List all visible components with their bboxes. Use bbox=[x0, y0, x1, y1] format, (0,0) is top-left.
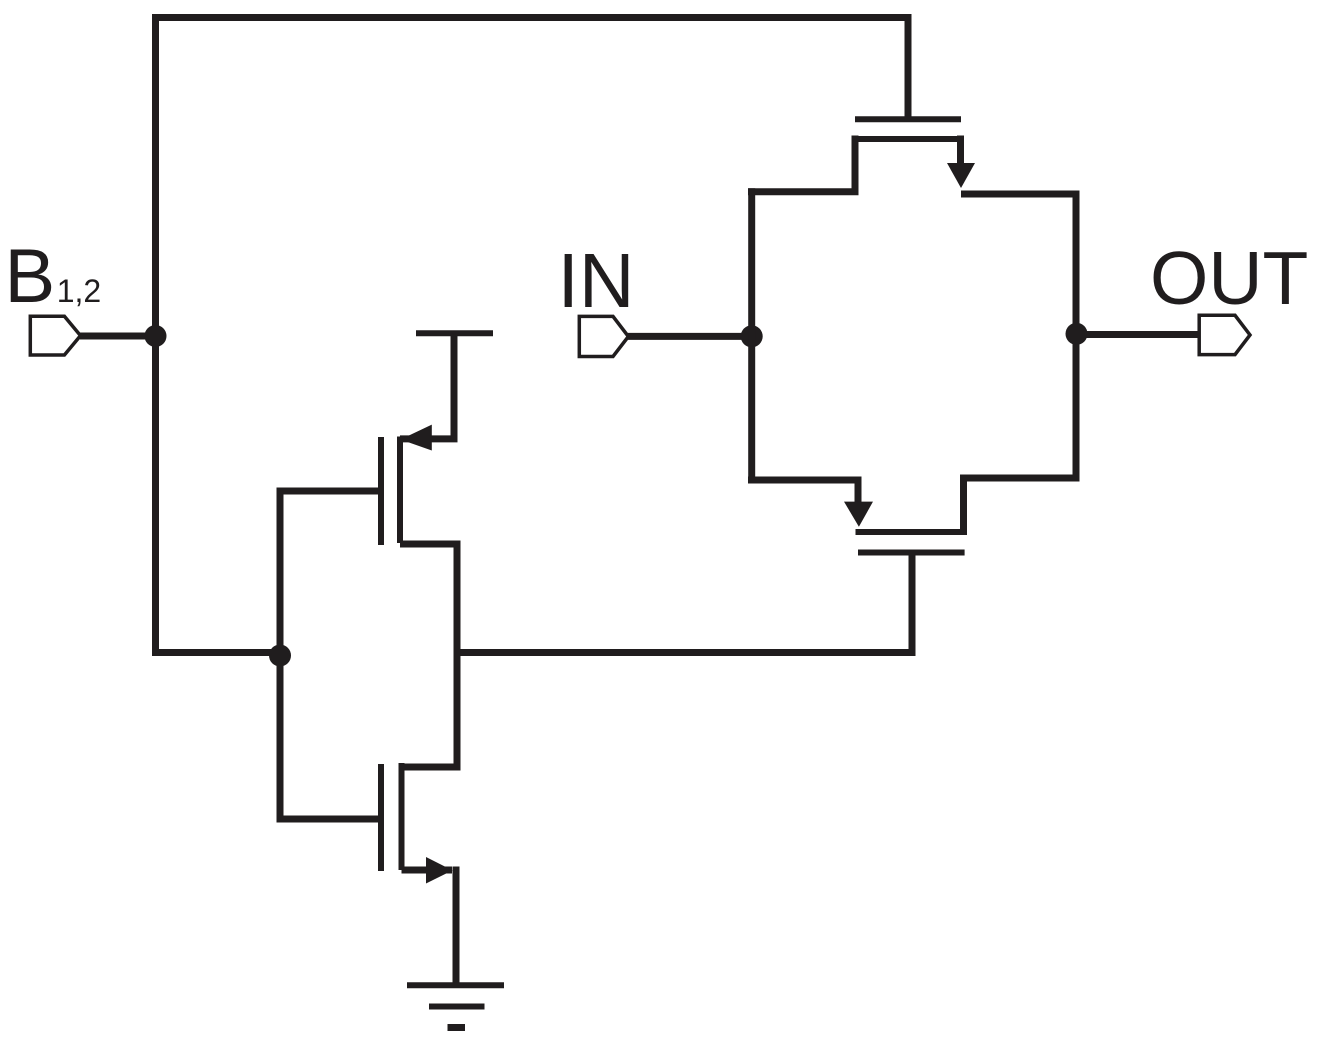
transistor M2 gate bar bbox=[858, 550, 965, 556]
node IN junction dot bbox=[741, 325, 763, 347]
transistor M2 gate lead down to inverter output wire bbox=[909, 553, 916, 657]
transistor M2 (TG bottom NMOS) source lead (left) with arrow bbox=[855, 477, 862, 504]
transistor M2 arrow (down into channel) bbox=[844, 502, 873, 527]
transistor M3 gate bar bbox=[378, 437, 384, 545]
wire: TG top-right horizontal to OUT vertical bbox=[961, 191, 1080, 198]
transistor M2 drain lead (right) bbox=[964, 478, 1080, 535]
port pin B (input flag) bbox=[30, 316, 80, 355]
transistor M1 drain lead (right) bbox=[957, 136, 964, 166]
wire: inverter input vertical (gates tie) bbox=[277, 488, 284, 823]
transistor M4 gate lead bbox=[280, 816, 378, 823]
transistor M3 (inverter PMOS) source lead horizontal bbox=[400, 435, 458, 442]
ground symbol bar 1 bbox=[407, 982, 504, 988]
transistor M3 arrow (left into channel) bbox=[401, 425, 432, 451]
transistor M4 drain lead bbox=[402, 764, 461, 771]
wire: OUT stub to OUT pin bbox=[1076, 331, 1200, 338]
transistor M4 channel bar bbox=[399, 763, 405, 870]
node inverter input junction dot bbox=[269, 645, 291, 667]
transistor M4 arrow (right away from channel) bbox=[426, 857, 453, 884]
wire: TG right vertical (OUT net) bbox=[1073, 191, 1080, 482]
svg-text:OUT: OUT bbox=[1150, 236, 1308, 320]
transistor M3 drain lead bbox=[400, 541, 461, 548]
wire: VDD lead down to PMOS source bbox=[451, 333, 458, 442]
node B junction dot bbox=[145, 325, 167, 347]
wire: top horizontal bus from node B to TG PMOS gate bbox=[152, 14, 912, 21]
transistor M3 channel bar bbox=[397, 437, 403, 544]
wire: inverter input horizontal from B vertical bbox=[152, 649, 280, 656]
wire: B pin stub to B vertical bbox=[80, 333, 156, 340]
wire: TG bottom-left horizontal from IN vertical bbox=[748, 477, 858, 484]
wire: IN pin stub to TG left node bbox=[628, 333, 752, 340]
svg-text:IN: IN bbox=[558, 238, 635, 324]
transistor M1 gate bar bbox=[855, 116, 961, 122]
wire: inverter output vertical (PMOS drain to NMOS drain) bbox=[454, 541, 461, 771]
transistor M4 (inverter NMOS) gate bar bbox=[378, 764, 384, 871]
transistor M1 (TG top PMOS) gate lead from top bus bbox=[905, 14, 912, 119]
transistor M2 channel bar bbox=[856, 529, 966, 535]
wire: NMOS source down to ground bbox=[453, 867, 460, 986]
supply VDD rail bar bbox=[416, 330, 493, 336]
port pin OUT (output flag) bbox=[1199, 315, 1250, 354]
ground symbol bar 3 bbox=[448, 1024, 466, 1031]
transistor M1 source lead (left) bbox=[748, 136, 855, 192]
wire: inverter output long horizontal to TG NMOS gate bbox=[457, 649, 916, 656]
node OUT junction dot bbox=[1066, 323, 1088, 345]
transistor M3 gate lead bbox=[280, 488, 378, 495]
wire: B net vertical (left side) bbox=[152, 14, 159, 656]
wire: TG left vertical bbox=[748, 188, 755, 483]
port pin IN (input flag) bbox=[579, 316, 628, 356]
transistor M1 channel bar bbox=[855, 136, 961, 142]
svg-text:B1,2: B1,2 bbox=[5, 234, 102, 319]
transistor M1 arrow (down) bbox=[947, 163, 975, 188]
transistor M4 source lead horizontal bbox=[402, 867, 453, 874]
ground symbol bar 2 bbox=[429, 1004, 485, 1010]
